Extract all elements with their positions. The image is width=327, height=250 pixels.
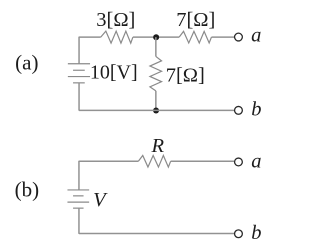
svg-text:(b): (b): [15, 178, 39, 202]
wire top right segment (circuit a): [211, 36, 234, 38]
wire junction to vertical resistor (circuit a): [155, 37, 157, 56]
resistor R (circuit b): [138, 155, 170, 167]
svg-text:3[Ω]: 3[Ω]: [96, 9, 135, 31]
resistor R 3ohm (circuit a): [101, 31, 133, 43]
svg-text:7[Ω]: 7[Ω]: [166, 65, 205, 87]
wire left rail lower (circuit b): [78, 208, 80, 234]
wire top segment right (circuit b): [171, 160, 234, 162]
terminal a (circuit b): [235, 158, 243, 166]
svg-text:R: R: [150, 135, 164, 157]
wire left rail upper (circuit a): [78, 37, 80, 64]
terminal b (circuit b): [235, 230, 243, 238]
battery B2 V (circuit b): [67, 190, 89, 208]
terminal b (circuit a): [235, 106, 243, 114]
wire top middle segment (circuit a): [133, 36, 179, 38]
junction node bottom (circuit a): [153, 107, 159, 113]
terminal a (circuit a): [235, 33, 243, 41]
svg-text:(a): (a): [15, 50, 38, 74]
svg-text:a: a: [251, 24, 261, 46]
wire vertical resistor to bottom rail (circuit a): [155, 91, 157, 111]
svg-text:b: b: [251, 98, 261, 120]
wire left rail lower (circuit a): [78, 83, 80, 111]
svg-text:a: a: [251, 151, 261, 173]
junction node top (circuit a): [153, 34, 159, 40]
svg-text:b: b: [251, 222, 261, 244]
wire left rail upper (circuit b): [78, 161, 80, 190]
battery B1 10V (circuit a): [68, 64, 90, 83]
svg-text:7[Ω]: 7[Ω]: [176, 9, 215, 31]
wire bottom rail (circuit a): [79, 109, 234, 111]
wire top-left segment (circuit a): [79, 36, 101, 38]
wire top segment left (circuit b): [79, 160, 138, 162]
wire bottom rail (circuit b): [79, 232, 234, 234]
svg-text:10[V]: 10[V]: [90, 62, 138, 84]
resistor R 7ohm vertical (circuit a): [150, 56, 162, 90]
resistor R 7ohm horizontal (circuit a): [179, 31, 211, 43]
